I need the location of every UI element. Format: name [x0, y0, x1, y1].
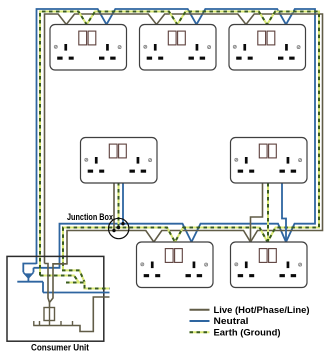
wire: earth drop from middle-right socket: [267, 183, 269, 242]
svg-text:Live (Hot/Phase/Line): Live (Hot/Phase/Line): [214, 305, 310, 316]
wire: earth spur junction box to middle-left socket: [118, 182, 120, 228]
wire: earth ring base (yellow-green underlay): [40, 12, 319, 283]
main switch (neutral side) in consumer unit: [23, 264, 36, 273]
wire: live drop from middle-right socket: [251, 183, 263, 242]
svg-text:Earth (Ground): Earth (Ground): [214, 327, 281, 338]
wire: live spur junction box to middle-left socket: [113, 182, 115, 231]
socket 5 (middle right): [231, 138, 308, 184]
socket 7 (bottom right): [231, 242, 308, 288]
wire: live ring (olive) base run: [45, 14, 323, 264]
socket 2 (top middle): [140, 25, 217, 71]
junction box terminal dot (neutral): [121, 222, 124, 225]
live bus bar comb in consumer unit: [33, 297, 109, 332]
junction box terminal dot (earth): [117, 226, 120, 229]
socket 3 (top right): [229, 25, 306, 71]
consumer unit box: [7, 256, 104, 341]
svg-text:Neutral: Neutral: [214, 316, 249, 327]
wire: neutral bar out of consumer unit: [43, 292, 110, 294]
wire: live into fuse (loop): [45, 264, 68, 308]
wire: earth ring dashes (green): [40, 12, 319, 283]
legend: earth swatch: [190, 331, 210, 333]
wire: neutral spur junction box to middle-left socket: [122, 182, 124, 224]
socket 6 (bottom left): [137, 242, 214, 288]
legend: live swatch: [190, 309, 210, 311]
junction box circle: [109, 218, 129, 238]
svg-text:Consumer Unit: Consumer Unit: [31, 342, 89, 352]
svg-text:Junction Box: Junction Box: [67, 212, 113, 222]
fuse in consumer unit: [44, 308, 55, 321]
wire: earth left leg inside consumer unit: [40, 276, 79, 283]
junction box terminal dot (live): [112, 229, 115, 232]
socket 4 (middle left): [81, 138, 158, 184]
legend: neutral swatch: [190, 320, 210, 322]
wire: neutral drop from middle-right socket: [282, 183, 286, 242]
wire: neutral ring (blue): [34, 9, 316, 268]
wire: earth rail out of consumer unit: [66, 283, 110, 289]
socket 1 (top left): [50, 25, 127, 71]
